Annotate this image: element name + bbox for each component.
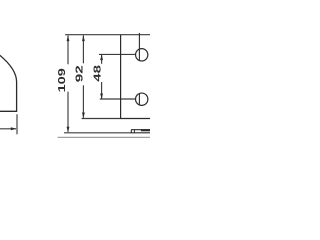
side view outline: [0, 54, 17, 112]
extension line 92 bottom: [82, 118, 120, 120]
dimension 48 arrow down: [100, 94, 103, 100]
dimension 109 arrow down: [67, 127, 70, 133]
upper screw slot line: [138, 33, 140, 61]
extension line below side view: [16, 114, 18, 134]
faint base line: [58, 136, 150, 138]
dimension 92 arrow up: [82, 35, 85, 41]
dimension 48 arrow up: [100, 54, 103, 60]
bottom view divider 2 thick segment: [141, 129, 150, 131]
bottom view bottom edge: [131, 132, 150, 134]
bottom view top edge: [131, 129, 150, 131]
dimension 92 line lower: [82, 85, 84, 117]
svg-text:48: 48: [92, 64, 103, 81]
extension line lower hole: [100, 98, 136, 100]
dimension 109 line upper: [67, 35, 69, 64]
extension line upper hole: [99, 53, 136, 55]
front plate bottom edge: [120, 118, 150, 120]
upper screw circle: [136, 49, 148, 61]
dimension 48 line lower: [101, 82, 103, 99]
dimension 92 arrow down: [82, 113, 85, 119]
bottom view divider 1: [133, 130, 135, 133]
dimension 109 line lower: [67, 92, 69, 132]
svg-text:92: 92: [75, 65, 86, 83]
dimension 48 line upper: [101, 54, 103, 63]
bottom view left edge: [130, 130, 132, 133]
front plate left edge: [120, 35, 122, 119]
dimension 109 arrow up: [67, 35, 70, 41]
top extension line: [65, 34, 150, 36]
lower screw circle: [136, 93, 148, 105]
depth dimension line: [0, 128, 16, 130]
lower screw slot line: [138, 94, 140, 105]
dimension 92 line upper: [82, 35, 84, 63]
extension line 109 bottom: [64, 132, 132, 134]
svg-text:109: 109: [57, 68, 68, 93]
depth dimension arrow: [11, 127, 17, 130]
